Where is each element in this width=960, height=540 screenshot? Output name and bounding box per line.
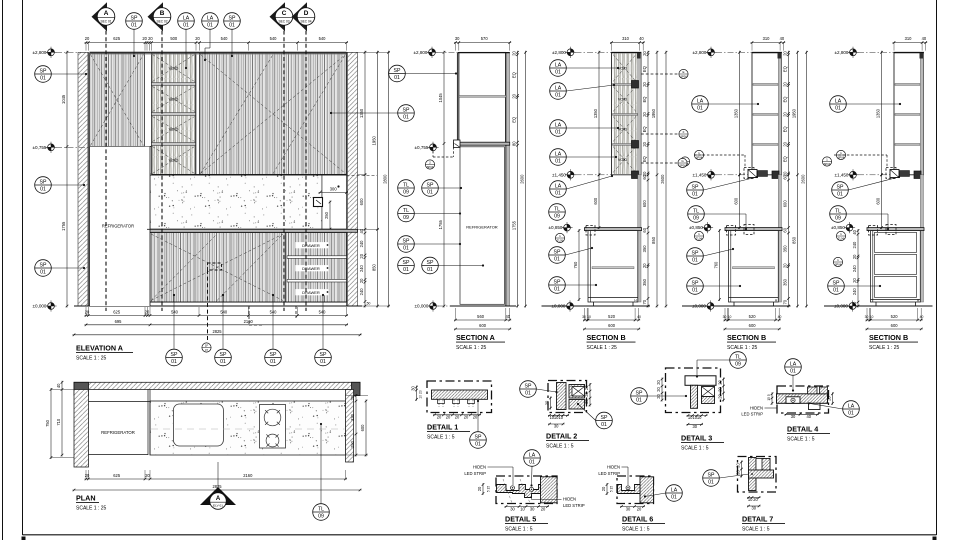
svg-text:600: 600 [593,197,598,205]
svg-text:TL04: TL04 [838,236,844,240]
detail 4 - border [777,386,829,413]
svg-text:1350: 1350 [734,108,739,118]
svg-text:EQ: EQ [783,156,788,162]
detail 5 - dashed diagonals [503,479,512,503]
svg-text:SP: SP [131,15,138,21]
svg-text:695: 695 [115,319,123,324]
svg-text:20: 20 [85,473,90,478]
svg-text:20: 20 [464,414,469,419]
svg-text:850: 850 [651,236,656,244]
detail 4 - lower step recess [809,403,821,409]
plan - right wall stub [346,390,354,463]
svg-text:01: 01 [554,286,560,292]
svg-text:SP: SP [40,179,47,185]
svg-text:±0,000: ±0,000 [551,304,565,309]
section B v1 - left dim 1350 [593,51,600,177]
section B v3 - level +2800 [834,47,858,58]
svg-text:SCALE 1 : 5: SCALE 1 : 5 [681,446,709,452]
svg-text:PLAN: PLAN [76,494,96,503]
svg-text:SCALE 1 : 25: SCALE 1 : 25 [727,345,758,351]
section B v3 - top dimension [893,36,928,51]
svg-text:20: 20 [783,51,788,56]
svg-text:20: 20 [783,82,788,87]
plan - refrigerator niche [89,401,151,403]
svg-text:40: 40 [920,315,924,319]
detail 2 - vertical panel hatch [557,383,567,410]
svg-text:01: 01 [525,390,531,396]
svg-text:240: 240 [359,264,364,272]
svg-text:SP: SP [394,68,401,74]
svg-text:1F: 1F [205,344,209,348]
svg-text:330: 330 [350,413,355,421]
svg-text:SP: SP [554,249,561,255]
svg-text:01: 01 [835,105,841,111]
detail 7 - middle hatched bar [749,470,774,478]
svg-text:SP: SP [40,262,47,268]
svg-text:30: 30 [752,506,757,511]
svg-text:SEC 03: SEC 03 [279,19,290,23]
svg-text:VOID: VOID [169,127,179,132]
elevation A - switch detail on backsplash [314,198,323,207]
svg-text:1755: 1755 [61,221,66,231]
section A - level +2800 [413,47,437,58]
svg-text:DETAIL 1: DETAIL 1 [427,423,458,432]
svg-text:50: 50 [852,301,857,306]
svg-text:520: 520 [891,314,899,319]
svg-text:20: 20 [446,414,451,419]
elevation A - left label circles [35,66,52,83]
section B v2 - bottom dims [724,308,781,321]
svg-text:01: 01 [40,186,46,192]
elevation A - VOID open shelving column [152,54,196,175]
detail 6 - right vertical panel hatch [640,477,654,503]
svg-text:EQ: EQ [512,72,517,78]
svg-text:SP: SP [229,15,236,21]
elevation A - bottom line of upper cabinets [152,174,347,176]
svg-text:SEC 02: SEC 02 [157,19,168,23]
svg-text:30: 30 [455,36,460,41]
svg-text:VOID: VOID [169,66,179,71]
svg-text:±0,000: ±0,000 [414,304,428,309]
section B3 - dashed leader from small circle to bottom clip [834,154,887,156]
section B v2 - wall strip below cabinet [778,175,781,302]
svg-text:±2,800: ±2,800 [834,50,848,55]
svg-text:SEC 01: SEC 01 [101,19,112,23]
svg-text:±0,755: ±0,755 [32,145,46,150]
svg-text:20: 20 [584,399,589,404]
svg-text:2600: 2600 [801,174,806,184]
svg-text:1755: 1755 [438,220,443,230]
svg-text:20: 20 [350,395,355,400]
svg-text:240: 240 [359,288,364,296]
svg-text:20: 20 [642,51,647,56]
elevation A - level markers left [32,47,56,58]
detail 4 - LA01 circles [785,359,802,376]
svg-text:EQ: EQ [642,156,647,162]
svg-text:SECTION B: SECTION B [869,333,908,342]
section B v2 - right dim chains [783,51,790,177]
detail 6 - dims [620,505,645,511]
svg-text:DETAIL 2: DETAIL 2 [546,432,577,441]
svg-text:600: 600 [734,197,739,205]
svg-text:20: 20 [541,507,546,512]
svg-text:01: 01 [270,359,276,365]
section A - floor line [450,305,516,307]
svg-text:SCALE 1 : 5: SCALE 1 : 5 [622,527,650,533]
svg-text:01: 01 [529,459,535,465]
svg-text:HIDEN: HIDEN [473,465,486,470]
svg-text:LA: LA [529,452,536,458]
svg-text:600: 600 [359,198,364,206]
section B v1 - level +2800 [552,47,576,58]
svg-text:850: 850 [792,236,797,244]
svg-text:SCALE 1 : 5: SCALE 1 : 5 [742,527,770,533]
svg-text:20: 20 [656,387,661,392]
section A - refrigerator outline [460,147,505,304]
svg-text:540: 540 [319,310,327,315]
svg-text:01: 01 [555,92,561,98]
svg-text:01: 01 [427,267,433,273]
svg-text:10 20: 10 20 [419,390,423,399]
svg-text:20: 20 [455,414,460,419]
svg-text:2825: 2825 [212,329,222,334]
elevation A - drawer stack [285,233,287,302]
svg-text:20: 20 [145,310,150,315]
svg-text:20: 20 [545,400,550,405]
svg-text:10: 10 [697,415,702,420]
svg-text:20: 20 [601,486,606,491]
svg-text:40: 40 [807,414,812,419]
svg-text:EQ: EQ [783,126,788,132]
svg-text:20: 20 [637,507,642,512]
section B v1 - floor [542,305,651,307]
svg-text:40: 40 [778,315,782,319]
svg-text:20: 20 [852,278,857,283]
svg-text:40: 40 [56,383,61,388]
svg-text:E: E [682,70,684,74]
svg-text:2600: 2600 [660,174,665,184]
svg-text:EQ: EQ [512,117,517,123]
svg-text:SP: SP [708,472,715,478]
detail 3 - vertical support hatch [691,385,698,408]
plan - left wall [74,390,89,468]
svg-text:710: 710 [56,418,61,426]
svg-text:VOID: VOID [618,158,628,162]
section B v3 - wall strip below cabinet [920,175,923,302]
elevation A - top label circles [126,13,143,30]
svg-text:SCALE 1 : 5: SCALE 1 : 5 [505,527,533,533]
svg-text:SP: SP [833,280,840,286]
svg-text:20: 20 [642,82,647,87]
svg-text:20: 20 [145,473,150,478]
svg-text:10: 10 [728,315,732,319]
svg-text:SP: SP [403,107,410,113]
svg-text:01: 01 [403,114,409,120]
svg-text:01: 01 [790,368,796,374]
svg-text:±2,800: ±2,800 [692,50,706,55]
detail 6 - border [617,476,654,504]
svg-text:LA: LA [790,361,797,367]
svg-text:DRAWER: DRAWER [302,243,320,248]
svg-text:10: 10 [870,315,874,319]
section B2/B3 - dashed counter leader boxes [744,225,754,235]
svg-text:09: 09 [735,361,741,367]
svg-text:350: 350 [642,245,647,253]
svg-text:20: 20 [85,310,90,315]
section A - dashed leader with small circle [432,151,434,157]
svg-text:600: 600 [783,200,788,208]
section B v2 - upper cabinet [752,52,782,175]
svg-text:20: 20 [736,470,741,475]
svg-text:350: 350 [783,278,788,286]
svg-text:ELV 01: ELV 01 [213,504,223,508]
section B v1 - top dimension [610,36,645,51]
section A - level markers [414,142,438,153]
svg-text:±1,450: ±1,450 [834,172,848,177]
svg-text:10: 10 [559,415,564,420]
plan - dims left [45,388,52,459]
svg-text:SECTION B: SECTION B [587,333,626,342]
svg-text:TL: TL [554,206,560,212]
svg-text:01: 01 [40,269,46,275]
svg-text:20: 20 [195,36,200,41]
svg-text:10: 10 [587,315,591,319]
section A - bottom dimensions [454,308,511,321]
plan - cooktop [260,405,286,449]
detail 7 - border [738,457,777,493]
svg-text:350: 350 [642,278,647,286]
svg-text:20: 20 [783,263,788,268]
detail 1 - SP01 circle [470,432,487,449]
svg-text:01: 01 [229,22,235,28]
svg-text:600: 600 [360,424,365,432]
svg-text:20: 20 [512,51,517,56]
detail 5 - LA01 circle [524,450,541,467]
detail 7 - top white box [756,459,770,471]
svg-text:5 15: 5 15 [610,486,614,492]
section B v2 - label circles [694,150,703,159]
svg-text:40: 40 [639,36,644,41]
svg-text:LA: LA [183,15,190,21]
svg-text:15 5: 15 5 [767,394,771,400]
elevation A - cabinet top cap line [90,51,347,53]
svg-text:540: 540 [221,36,229,41]
svg-text:30: 30 [791,414,796,419]
svg-text:EQ: EQ [642,97,647,103]
svg-text:LA: LA [555,122,562,128]
svg-text:01: 01 [207,22,213,28]
section B v2 - level +2800 [692,47,716,58]
svg-text:REFRIGERATOR: REFRIGERATOR [466,225,498,230]
section B v3 - level +1450 [834,169,858,180]
section A - right dimension chains [512,51,519,308]
svg-text:SP: SP [270,352,277,358]
svg-text:2800: 2800 [383,174,388,184]
svg-text:DETAIL 3: DETAIL 3 [681,434,712,443]
svg-text:520: 520 [749,314,757,319]
svg-text:LA: LA [697,98,704,104]
svg-text:2160: 2160 [244,319,254,324]
svg-text:EQ: EQ [642,126,647,132]
svg-text:SCALE 1 : 5: SCALE 1 : 5 [427,435,455,441]
elevation A - wide upper cabinet doors [200,54,347,175]
svg-text:2160: 2160 [243,473,253,478]
svg-text:01: 01 [131,22,137,28]
svg-text:SP: SP [525,383,532,389]
svg-text:SP: SP [601,415,608,421]
svg-text:VOID: VOID [169,97,179,102]
section B v1 - wall strip below cabinet [638,175,641,302]
svg-text:20: 20 [437,414,442,419]
svg-text:01: 01 [708,479,714,485]
svg-text:350: 350 [783,245,788,253]
section B v2 - floor [682,305,791,307]
svg-text:SP: SP [320,352,327,358]
svg-text:01: 01 [475,441,481,447]
detail 4 - main hatched bar [777,394,828,404]
svg-text:240: 240 [359,240,364,248]
svg-text:LED STRIP: LED STRIP [563,503,585,508]
svg-text:30: 30 [582,315,586,319]
svg-text:60: 60 [783,227,788,232]
svg-text:SP06: SP06 [679,163,686,167]
svg-text:01: 01 [555,69,561,75]
svg-text:70: 70 [642,299,647,304]
svg-text:01: 01 [183,22,189,28]
svg-text:01: 01 [555,190,561,196]
svg-text:LED STRIP: LED STRIP [741,412,763,417]
svg-text:SCALE 1 : 25: SCALE 1 : 25 [76,506,107,512]
plan - top wall band [74,382,360,389]
plan - counter with speckle [150,401,346,455]
svg-text:±2,800: ±2,800 [32,50,46,55]
plan - bottom dims [85,470,348,480]
section B v2 - base cabinet [729,231,779,302]
svg-text:DETAIL 5: DETAIL 5 [505,515,536,524]
svg-text:SCALE 1 : 25: SCALE 1 : 25 [869,345,900,351]
svg-text:01: 01 [403,267,409,273]
svg-text:540: 540 [270,310,278,315]
svg-text:09: 09 [318,513,324,519]
svg-text:EQ: EQ [783,97,788,103]
svg-text:540: 540 [319,36,327,41]
svg-text:01: 01 [555,129,561,135]
svg-text:SP: SP [554,279,561,285]
svg-text:SP: SP [636,390,643,396]
elevation A - right vertical dimension chains [359,51,366,308]
plan - counter centreline dashed [151,428,345,430]
svg-text:TL: TL [403,208,409,214]
svg-text:1045: 1045 [438,93,443,103]
svg-text:600: 600 [608,323,616,328]
svg-text:TL09: TL09 [557,238,563,242]
svg-text:SP04: SP04 [838,155,845,159]
plan - dims right [350,394,357,457]
svg-text:30: 30 [693,424,698,429]
svg-text:30: 30 [723,315,727,319]
svg-text:09: 09 [835,215,841,221]
svg-text:01: 01 [40,75,46,81]
svg-text:01: 01 [403,245,409,251]
detail 1 - support notches [438,399,445,403]
svg-text:SP: SP [692,184,699,190]
detail 1 - hatched counter band [432,390,488,399]
section B v1 - bottom clip [632,171,639,179]
svg-text:DETAIL 6: DETAIL 6 [622,515,653,524]
section A - left dimension [438,51,445,308]
svg-text:540: 540 [220,310,228,315]
section A - label circles [389,65,406,82]
svg-text:VOID: VOID [618,98,628,102]
section cut dashed line A [105,24,107,311]
svg-text:LA: LA [555,85,562,91]
detail 3 - dims [687,414,708,420]
svg-text:570: 570 [481,36,489,41]
svg-text:SP04: SP04 [824,162,831,166]
svg-text:DETAIL 4: DETAIL 4 [787,425,818,434]
detail 2 - border [548,381,587,413]
section B v1 - label circles [550,60,567,77]
svg-text:C: C [282,10,287,17]
svg-text:625: 625 [113,310,121,315]
svg-text:01: 01 [427,189,433,195]
svg-text:70: 70 [783,299,788,304]
svg-text:±2,800: ±2,800 [552,50,566,55]
svg-text:240: 240 [852,288,857,296]
section B v1 - level +1450 [552,169,576,180]
svg-text:SP: SP [692,280,699,286]
elevation A - upper cabinet above refrigerator [90,54,145,147]
svg-text:±1,450: ±1,450 [692,172,706,177]
section A - cabinet upper part [457,52,459,143]
svg-text:TL: TL [403,182,409,188]
svg-text:40: 40 [780,36,785,41]
svg-text:20: 20 [359,278,364,283]
svg-text:SP: SP [692,250,699,256]
svg-text:20: 20 [473,414,478,419]
svg-text:60: 60 [642,227,647,232]
svg-text:20: 20 [753,497,758,502]
svg-text:1950: 1950 [792,108,797,118]
elevation A - stone backsplash speckled [150,175,322,229]
svg-text:SCALE 1 : 25: SCALE 1 : 25 [76,356,107,362]
detail 7 - SP01 circle [703,470,720,487]
svg-text:01: 01 [320,359,326,365]
svg-text:F: F [683,130,685,134]
svg-text:01: 01 [671,494,677,500]
svg-text:10: 10 [520,507,525,512]
elevation A - tall cabinet side panels [145,54,152,175]
svg-text:20: 20 [85,36,90,41]
svg-text:01: 01 [692,257,698,263]
svg-text:TL: TL [835,208,841,214]
svg-text:SP04: SP04 [696,155,703,159]
svg-text:±0,000: ±0,000 [692,304,706,309]
svg-text:20: 20 [827,396,832,401]
svg-text:SP: SP [403,238,410,244]
svg-text:600: 600 [891,323,899,328]
svg-text:SP: SP [427,260,434,266]
svg-text:01: 01 [554,256,560,262]
svg-text:1045: 1045 [61,94,66,104]
section B v3 - label circles [836,150,845,159]
svg-text:20: 20 [642,112,647,117]
section B v3 - floor [824,305,933,307]
elevation A - bottom label circles [202,343,211,352]
section B v3 - bottom dims [866,308,923,321]
svg-text:540: 540 [270,36,278,41]
plan - sink [173,404,223,446]
